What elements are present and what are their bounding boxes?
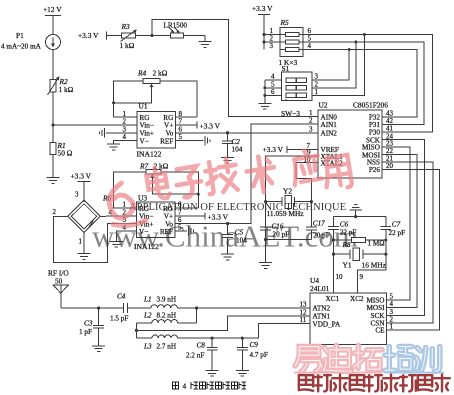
- svg-text:C7: C7: [392, 220, 401, 228]
- svg-text:C9: C9: [250, 341, 259, 349]
- svg-text:22 pF: 22 pF: [389, 229, 406, 237]
- svg-text:+3.3 V: +3.3 V: [263, 145, 284, 154]
- ground (LR1500): [199, 42, 212, 48]
- svg-text:50 Ω: 50 Ω: [58, 149, 73, 158]
- resistor R7 2k gain-set with wiper: [114, 162, 200, 208]
- svg-text:R7: R7: [139, 162, 149, 171]
- bridge sensor R6: [68, 194, 112, 233]
- svg-text:+3.3 V: +3.3 V: [252, 4, 273, 13]
- svg-text:2 kΩ: 2 kΩ: [153, 69, 168, 78]
- U2 XTAL2 wire: [296, 163, 318, 202]
- S1 pin3 wire up: [312, 48, 351, 81]
- svg-text:20: 20: [386, 162, 394, 170]
- wire MISO to U4: [382, 147, 410, 300]
- svg-text:REF: REF: [160, 228, 173, 236]
- svg-text:P26: P26: [369, 166, 381, 174]
- wire NSS to U4 CSN: [382, 162, 433, 323]
- svg-text:3: 3: [75, 191, 79, 199]
- svg-text:4: 4: [183, 382, 187, 391]
- svg-text:AIN2: AIN2: [321, 129, 338, 137]
- wire MOSI to U4: [382, 155, 417, 308]
- U4 right pin digits: [390, 293, 394, 331]
- svg-text:CE: CE: [375, 327, 385, 335]
- left bracket node: [135, 323, 138, 338]
- svg-text:4 mA~20 mA: 4 mA~20 mA: [1, 43, 42, 51]
- svg-text:3: 3: [309, 125, 313, 133]
- svg-text:C16: C16: [272, 222, 284, 230]
- resistor R1 50ohm: [50, 141, 73, 158]
- svg-text:8: 8: [179, 110, 183, 118]
- svg-text:1.5 pF: 1.5 pF: [110, 315, 128, 323]
- svg-text:1: 1: [123, 110, 127, 118]
- svg-text:RG: RG: [163, 205, 173, 213]
- svg-text:9: 9: [360, 273, 364, 281]
- U3 pin7 +3.3V: [175, 208, 229, 221]
- U3 pin8 stub: [175, 201, 198, 209]
- svg-text:6: 6: [179, 125, 183, 133]
- svg-text:5: 5: [179, 133, 183, 141]
- ground (C6/C7 common, inverted): [349, 204, 362, 216]
- capacitor C8 2.2nF: [186, 338, 218, 370]
- svg-text:R3: R3: [121, 22, 131, 31]
- crystal Y1 16MHz: [334, 248, 387, 270]
- U3 pin5 REF side ground: [175, 224, 194, 236]
- svg-text:Vin+: Vin+: [140, 130, 154, 138]
- svg-text:L1: L1: [143, 296, 152, 304]
- wire SCK to U4: [382, 140, 425, 316]
- capacitor C6 22pF: [328, 217, 356, 237]
- wire R2 to R1, node to U1 Vin-: [52, 92, 54, 143]
- bridge terminal 2 wire to U3 Vin+: [53, 208, 137, 262]
- svg-text:22 pF: 22 pF: [340, 229, 357, 237]
- svg-text:AIN1: AIN1: [321, 121, 338, 129]
- resistor R8 1M: [334, 238, 386, 249]
- svg-text:INA122: INA122: [134, 242, 159, 251]
- svg-text:C3: C3: [84, 320, 93, 328]
- wire R3 to LR1500 with junction: [136, 35, 171, 37]
- svg-text:1: 1: [390, 323, 394, 331]
- op-amp U1 INA122: [137, 102, 176, 159]
- U3 pin1 stub: [114, 201, 137, 209]
- svg-text:U2: U2: [319, 101, 328, 110]
- svg-text:8.2 nH: 8.2 nH: [157, 312, 177, 320]
- svg-text:1: 1: [315, 88, 319, 96]
- svg-text:2.2 nF: 2.2 nF: [186, 352, 204, 360]
- power +3.3V (bridge): [71, 172, 92, 203]
- node R3/LR1500: [150, 34, 153, 37]
- svg-text:VDD_PA: VDD_PA: [313, 320, 342, 328]
- svg-text:C6: C6: [340, 220, 349, 228]
- svg-text:1: 1: [79, 238, 83, 246]
- wire L3 to VDD_PA: [178, 324, 311, 340]
- RF main line: [61, 307, 124, 309]
- svg-text:APPLICATION OF ELECTRONIC TECH: APPLICATION OF ELECTRONIC TECHNIQUE: [129, 202, 346, 213]
- svg-text:16 MHz: 16 MHz: [362, 261, 387, 270]
- svg-text:3: 3: [270, 42, 274, 50]
- R5 pin5 wire to P31: [303, 35, 424, 125]
- U1 pin7 +3.3V: [175, 118, 220, 131]
- wire C16 to C17 bottoms: [266, 238, 312, 240]
- svg-text:C17: C17: [313, 219, 325, 227]
- U1 pin5 REF side ground: [175, 133, 210, 145]
- svg-text:C4: C4: [117, 293, 126, 301]
- ground (S1): [258, 103, 271, 109]
- svg-text:R4: R4: [137, 69, 147, 78]
- ground (C16): [259, 263, 272, 269]
- node junction: [51, 123, 54, 126]
- svg-text:ATN2: ATN2: [313, 305, 331, 313]
- inductor L3 2.7nH: [136, 335, 177, 350]
- svg-text:MOSI: MOSI: [367, 304, 386, 312]
- U2 right pin digits: [386, 110, 394, 170]
- resistor R4 2k gain-set with wiper: [112, 69, 197, 118]
- svg-text:1 kΩ: 1 kΩ: [59, 85, 74, 94]
- resistor network R5 1Kx3: [279, 18, 304, 67]
- capacitor C5 104: [222, 224, 247, 255]
- svg-text:4: 4: [390, 300, 394, 308]
- svg-text:C8: C8: [197, 341, 206, 349]
- svg-text:SW−3: SW−3: [281, 109, 300, 118]
- power +12V: [43, 5, 62, 35]
- XC2 node vertical: [358, 229, 388, 293]
- svg-text:104: 104: [236, 237, 247, 245]
- svg-text:XC1: XC1: [326, 295, 340, 303]
- S1 pin2 wire up: [312, 41, 358, 89]
- wire P1 to R2: [52, 50, 54, 80]
- wire node to U1 pin2: [53, 124, 137, 126]
- svg-text:U3: U3: [138, 194, 147, 203]
- L2 branch: [136, 308, 196, 323]
- svg-text:1 kΩ: 1 kΩ: [120, 41, 135, 50]
- svg-text:2: 2: [123, 118, 127, 126]
- resistor R3 1k (adjustable): [120, 22, 137, 50]
- op-amp U3 INA122: [134, 194, 175, 252]
- svg-text:+3.3 V: +3.3 V: [71, 172, 92, 181]
- switch S1 SW-3: [281, 64, 312, 118]
- svg-text:2.7 nH: 2.7 nH: [157, 342, 177, 350]
- svg-text:L2: L2: [143, 312, 152, 320]
- capacitor C2 104: [222, 133, 243, 158]
- svg-text:2: 2: [309, 117, 313, 125]
- wire R1 to ground: [52, 155, 54, 178]
- U1 pin8 stub: [175, 110, 197, 118]
- crystal Y2 11.059MHz: [264, 187, 313, 218]
- svg-text:L3: L3: [143, 342, 152, 350]
- svg-text:+3.3 V: +3.3 V: [200, 121, 221, 130]
- node C3: [97, 306, 100, 309]
- svg-text:S1: S1: [282, 64, 290, 73]
- ground: [47, 178, 60, 184]
- svg-text:RG: RG: [139, 205, 149, 213]
- U2 XTAL1 wire: [266, 156, 318, 202]
- wire LR1500 to ground: [184, 35, 206, 37]
- bridge terminal 1 to ground: [78, 233, 91, 260]
- XC1 node vertical: [332, 229, 343, 293]
- svg-text:5: 5: [178, 224, 182, 232]
- svg-text:+3.3 V: +3.3 V: [208, 212, 229, 221]
- caption: fig 4 measurement module schematic: [172, 382, 246, 391]
- U1 pin1 stub: [114, 110, 137, 118]
- svg-text:INA122: INA122: [137, 150, 162, 159]
- svg-text:V+: V+: [164, 122, 173, 130]
- U3 pin6 Vo wire to AIN1: [175, 124, 318, 225]
- power +3.3V (R5): [252, 4, 273, 50]
- svg-text:V−: V−: [140, 137, 149, 145]
- antenna RF I/O: [48, 269, 69, 309]
- svg-text:U1: U1: [139, 102, 148, 111]
- wire bracket to ATN1: [136, 316, 310, 330]
- ground (C2): [221, 157, 234, 163]
- svg-text:+12 V: +12 V: [43, 5, 62, 14]
- inductor L1 3.9nH: [143, 296, 177, 309]
- U4 left pin digits: [300, 301, 308, 325]
- U2 left pin digits: [304, 109, 314, 163]
- svg-text:3: 3: [315, 73, 319, 81]
- svg-text:11.059 MHz: 11.059 MHz: [267, 209, 305, 218]
- svg-text:RF I/O: RF I/O: [48, 269, 69, 278]
- svg-text:1: 1: [123, 201, 127, 209]
- S1 pin1 wire up: [312, 33, 366, 96]
- svg-text:4: 4: [271, 73, 275, 81]
- svg-text:ATN1: ATN1: [313, 313, 331, 321]
- svg-text:C8051F206: C8051F206: [353, 101, 388, 110]
- svg-text:R8: R8: [342, 241, 351, 249]
- svg-text:R5: R5: [280, 18, 290, 27]
- power +3.3V (R3): [78, 31, 122, 40]
- capacitor C16 20pF: [260, 202, 289, 263]
- current source P1: [1, 31, 61, 51]
- svg-text:104: 104: [232, 145, 243, 153]
- svg-text:1 MΩ: 1 MΩ: [368, 240, 385, 248]
- capacitor C17 20pF: [306, 202, 330, 240]
- ground (C3): [92, 346, 105, 352]
- capacitor C3 1pF: [79, 308, 104, 346]
- svg-text:8: 8: [178, 201, 182, 209]
- svg-text:2: 2: [53, 208, 57, 216]
- svg-text:XC2: XC2: [350, 295, 364, 303]
- capacitor C9 4.7pF: [237, 338, 268, 370]
- resistor R2 1k (adjustable): [48, 76, 74, 95]
- U1 pin4 stub to ground: [107, 133, 137, 150]
- svg-text:1 pF: 1 pF: [79, 328, 92, 336]
- MCU U2 C8051F206: [318, 101, 388, 179]
- R5 left pin wires: [263, 27, 280, 50]
- U3 pin4 stub to ground: [110, 224, 137, 248]
- R5 pin4 wire to P32: [303, 42, 417, 117]
- svg-text:4.7 pF: 4.7 pF: [250, 351, 268, 359]
- wire C6/C7 top: [334, 215, 386, 218]
- svg-text:V−: V−: [139, 228, 148, 236]
- capacitor C4 1.5pF: [110, 293, 151, 323]
- svg-text:+3.3 V: +3.3 V: [78, 31, 99, 40]
- svg-text:P1: P1: [16, 31, 24, 40]
- svg-text:3.9 nH: 3.9 nH: [157, 296, 177, 304]
- bridge terminal 4 wire to U3 Vin-: [100, 209, 136, 217]
- RF transceiver U4 24L01: [310, 276, 387, 345]
- U1 pin6 Vo wire to AIN2: [175, 125, 318, 134]
- svg-text:Vin−: Vin−: [140, 122, 154, 130]
- svg-text:10: 10: [336, 273, 344, 281]
- svg-text:20 pF: 20 pF: [273, 230, 290, 238]
- wire sensor divider to AIN0: [152, 19, 318, 116]
- U2 VREF +3.3V: [263, 145, 319, 154]
- U1 pin3 stub to side ground: [100, 125, 138, 137]
- svg-text:C5: C5: [235, 228, 244, 236]
- svg-text:24L01: 24L01: [310, 284, 330, 293]
- ground (C9): [236, 370, 249, 376]
- svg-text:3: 3: [123, 125, 127, 133]
- svg-text:Y1: Y1: [343, 261, 352, 270]
- S1 left pins to ground rail: [263, 73, 281, 104]
- svg-text:REF: REF: [160, 137, 173, 145]
- wire L1 to ATN2: [178, 306, 310, 309]
- photoresistor LR1500: [164, 22, 188, 39]
- svg-text:7: 7: [179, 118, 183, 126]
- ground (C8): [206, 370, 219, 376]
- svg-text:4: 4: [308, 42, 312, 50]
- R5 pin6 wire to P30: [303, 27, 432, 132]
- capacitor C7 22pF: [381, 217, 406, 237]
- svg-text:Y2: Y2: [283, 187, 292, 196]
- svg-text:20 pF: 20 pF: [313, 232, 330, 240]
- svg-text:Vo: Vo: [165, 130, 173, 138]
- svg-text:6: 6: [271, 88, 275, 96]
- wire P26 to U4 CE: [382, 169, 439, 330]
- svg-text:4: 4: [123, 133, 127, 141]
- ground (C5): [221, 254, 234, 260]
